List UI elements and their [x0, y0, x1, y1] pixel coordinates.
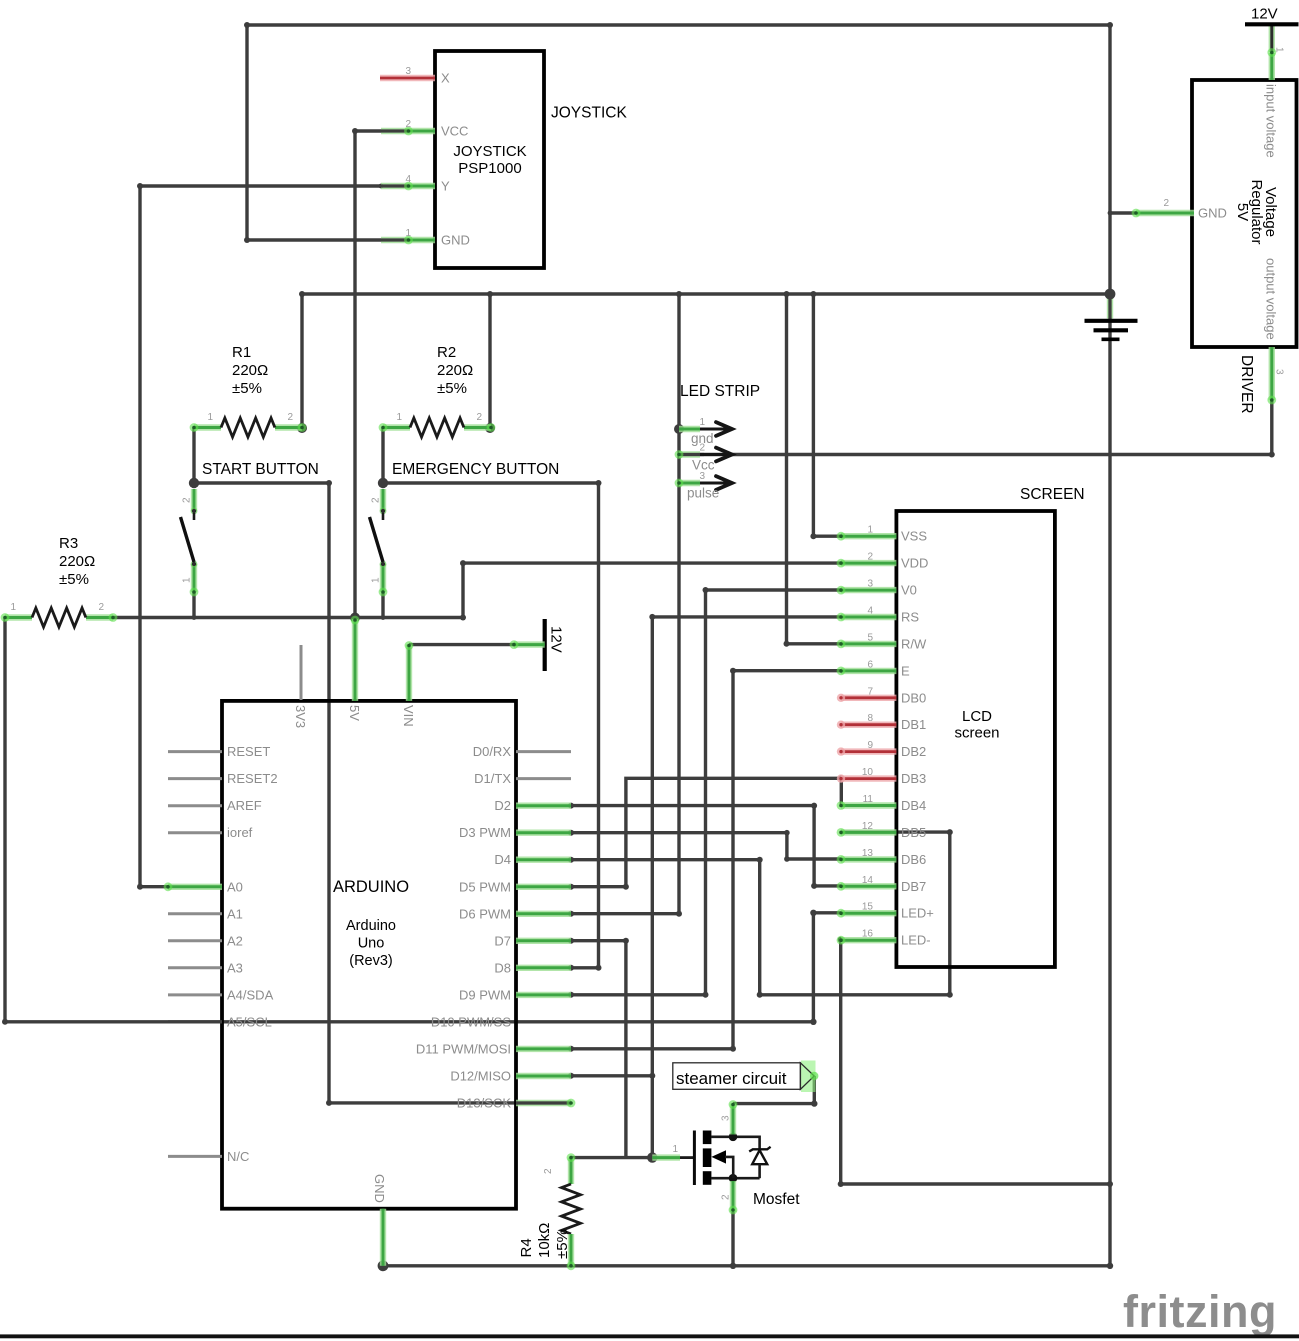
fritzing watermark — [1123, 1286, 1277, 1337]
svg-text:2: 2 — [98, 602, 104, 613]
svg-text:R2: R2 — [437, 344, 456, 361]
svg-text:DB0: DB0 — [901, 690, 926, 705]
svg-text:SCREEN: SCREEN — [1020, 486, 1085, 503]
wire D12 to gate vertical — [568, 1073, 655, 1079]
svg-text:D2: D2 — [494, 798, 511, 813]
arduino pin D12-MISO label — [450, 1069, 511, 1084]
resistor R3 labels — [59, 535, 95, 588]
wire start button to D13/SCK — [194, 480, 571, 1106]
arduino GND label — [372, 1174, 387, 1203]
wire D3 to DB6 — [568, 830, 841, 862]
screen pin 12 DB5 — [837, 828, 897, 837]
svg-text:D0/RX: D0/RX — [473, 744, 512, 759]
svg-text:D3 PWM: D3 PWM — [459, 825, 511, 840]
svg-text:LED-: LED- — [901, 933, 931, 948]
screen pin 13 DB6 — [837, 855, 897, 864]
svg-text:3: 3 — [699, 471, 705, 482]
svg-text:D10 PWM/SS: D10 PWM/SS — [431, 1014, 512, 1029]
LED STRIP title — [680, 383, 760, 400]
svg-text:D12/MISO: D12/MISO — [450, 1069, 511, 1084]
start button pin numbers — [182, 497, 193, 583]
arduino pin A4-SDA label — [227, 987, 274, 1002]
emergency button title — [392, 461, 559, 478]
arduino title — [333, 878, 409, 896]
svg-text:R3: R3 — [59, 535, 78, 552]
arduino pin D4 — [516, 857, 571, 863]
wire D9 to V0 — [568, 587, 841, 998]
LED strip pin Vcc — [675, 448, 732, 462]
screen pin number 3 — [867, 579, 873, 590]
svg-text:DB6: DB6 — [901, 852, 926, 867]
svg-text:GND: GND — [372, 1174, 387, 1203]
svg-text:Uno: Uno — [358, 936, 385, 952]
wire joystick VCC down to 5V rail — [352, 128, 381, 618]
arduino 3V3 label — [293, 705, 308, 728]
screen pin DB5 label — [901, 825, 926, 840]
svg-text:D9 PWM: D9 PWM — [459, 987, 511, 1002]
joystick pin 3 number — [405, 66, 411, 77]
wire LED- to ground — [838, 937, 1113, 1187]
joystick pin 4 number — [405, 174, 411, 185]
arduino pin RESET2 (unrouted stub) — [168, 777, 222, 780]
svg-text:LED+: LED+ — [901, 906, 934, 921]
svg-text:1: 1 — [405, 228, 411, 239]
mosfet pin 1 number — [672, 1144, 678, 1155]
screen pin number 16 — [862, 929, 874, 940]
arduino pin D13-SCK — [516, 1099, 575, 1108]
arduino pin D1-TX label — [474, 771, 511, 786]
arduino pin A1 (unrouted stub) — [168, 912, 222, 915]
joystick pin 2 number — [405, 119, 411, 130]
junction mosfet gate net — [647, 1152, 657, 1162]
12V label (near arduino) — [548, 626, 565, 653]
svg-text:ioref: ioref — [227, 825, 253, 840]
arduino pin A4-SDA (unrouted stub) — [168, 993, 222, 996]
resistor R2 labels — [437, 344, 473, 397]
screen pin number 1 — [867, 525, 873, 536]
joystick inner label — [453, 143, 526, 177]
resistor R4 pin 2 number — [543, 1168, 554, 1174]
svg-text:4: 4 — [405, 174, 411, 185]
screen pin number 10 — [862, 767, 874, 778]
screen pin 7 DB0 (red, unrouted) — [837, 694, 897, 702]
bottom border bar — [0, 1334, 1299, 1338]
wire regulator GND to ground vertical — [1108, 211, 1136, 216]
resistor R2 — [379, 418, 496, 437]
svg-text:1: 1 — [371, 577, 382, 583]
svg-text:2: 2 — [287, 412, 293, 423]
svg-text:4: 4 — [867, 606, 873, 617]
svg-text:5V: 5V — [1234, 203, 1251, 221]
svg-text:2: 2 — [476, 412, 482, 423]
regulator pin 2 number — [1163, 198, 1169, 209]
arduino pin D4 label — [494, 852, 511, 867]
screen pin DB1 label — [901, 717, 926, 732]
svg-text:16: 16 — [862, 929, 874, 940]
arduino pin D9 PWM label — [459, 987, 511, 1002]
wire VSS to ground rail — [810, 294, 841, 539]
wire ground rail y294 — [299, 291, 1110, 297]
svg-text:Mosfet: Mosfet — [753, 1191, 800, 1208]
DRIVER title — [1238, 355, 1255, 414]
junction start button — [189, 478, 199, 488]
screen pin LED+ label — [901, 906, 934, 921]
screen pin number 4 — [867, 606, 873, 617]
arduino pin AREF (unrouted stub) — [168, 804, 222, 807]
svg-text:1: 1 — [672, 1144, 678, 1155]
svg-text:DB7: DB7 — [901, 879, 926, 894]
mosfet pin 3 number — [721, 1115, 732, 1121]
joystick title — [551, 105, 627, 122]
regulator output voltage label — [1264, 258, 1279, 340]
svg-text:pulse: pulse — [687, 486, 719, 501]
svg-text:input voltage: input voltage — [1264, 84, 1279, 158]
wire D6 to LED-strip gnd vertical — [568, 294, 682, 917]
svg-text:fritzing: fritzing — [1123, 1286, 1277, 1337]
svg-text:2: 2 — [371, 497, 382, 503]
svg-text:R/W: R/W — [901, 636, 927, 651]
regulator pin 2 GND — [1132, 209, 1194, 218]
arduino pin D13-SCK label — [457, 1096, 512, 1111]
screen pin VSS label — [901, 529, 927, 544]
wire 12V symbol to arduino VIN — [409, 643, 514, 646]
arduino pin A2 label — [227, 933, 243, 948]
resistor R1 — [190, 418, 307, 437]
screen pin number 2 — [867, 552, 873, 563]
regulator pin 1 input — [1267, 48, 1276, 80]
screen pin DB3 label — [901, 771, 926, 786]
svg-text:5V: 5V — [347, 705, 362, 721]
svg-text:RS: RS — [901, 610, 919, 625]
svg-text:3: 3 — [721, 1115, 732, 1121]
arduino U5 box — [222, 701, 516, 1209]
svg-text:DB1: DB1 — [901, 717, 926, 732]
arduino pin D12-MISO — [516, 1073, 571, 1079]
resistor R3 — [1, 608, 118, 627]
arduino pin A2 (unrouted stub) — [168, 939, 222, 942]
wire start button pin1 to 5V rail — [192, 592, 197, 620]
svg-text:RESET: RESET — [227, 744, 270, 759]
arduino pin A3 label — [227, 960, 243, 975]
svg-text:3: 3 — [1274, 369, 1285, 375]
arduino pin D3 PWM label — [459, 825, 511, 840]
svg-text:2: 2 — [699, 443, 705, 454]
svg-text:D7: D7 — [494, 933, 511, 948]
joystick pin GND — [381, 236, 435, 245]
wire R1 pin2 up to ground rail — [297, 294, 307, 433]
wire regulator output to LED strip Vcc — [680, 400, 1275, 458]
svg-text:12V: 12V — [548, 626, 565, 653]
12V supply symbol (near arduino) — [510, 619, 545, 671]
voltage regulator U3 box — [1192, 80, 1297, 347]
svg-text:220Ω: 220Ω — [232, 362, 268, 379]
screen pin number 6 — [867, 659, 873, 670]
ground symbol — [1085, 289, 1138, 340]
arduino VIN label — [401, 705, 416, 727]
wire RS down to gate net — [649, 614, 841, 1158]
screen pin 4 RS — [837, 613, 897, 622]
svg-text:Y: Y — [441, 179, 450, 194]
svg-text:DB2: DB2 — [901, 744, 926, 759]
resistor R2 pin numbers — [396, 412, 482, 423]
wire R1 pin1 down to start button — [192, 428, 195, 484]
arduino pin GND — [380, 1209, 386, 1266]
wire mosfet drain to steamer arrow — [733, 1076, 818, 1107]
screen pin V0 label — [901, 583, 917, 598]
svg-text:±5%: ±5% — [554, 1229, 571, 1259]
wire D7 down to gate net — [568, 938, 629, 1158]
svg-text:1: 1 — [182, 577, 193, 583]
junction LED strip gnd — [674, 424, 684, 434]
mosfet Q1 source link — [711, 1174, 760, 1183]
screen pin 15 LED+ — [837, 909, 897, 918]
LED strip pin 3 number — [699, 471, 705, 482]
screen pin number 9 — [867, 740, 873, 751]
svg-text:D6 PWM: D6 PWM — [459, 906, 511, 921]
junction emergency button — [378, 478, 388, 488]
emergency button pin numbers — [371, 497, 382, 583]
LCD screen inner label — [954, 708, 999, 742]
mosfet pin 2 number — [721, 1194, 732, 1200]
wire R3 pin1 to LED+ via y1022 — [2, 618, 841, 1026]
svg-text:15: 15 — [862, 902, 874, 913]
mosfet label — [753, 1191, 800, 1208]
regulator input voltage label — [1264, 84, 1279, 158]
switch START BUTTON — [181, 489, 199, 596]
wire D11 to E — [568, 668, 841, 1052]
svg-text:2: 2 — [867, 552, 873, 563]
screen title — [1020, 486, 1085, 503]
svg-text:DRIVER: DRIVER — [1238, 355, 1255, 414]
resistor R1 pin numbers — [207, 412, 293, 423]
arduino pin A0 label — [227, 879, 243, 894]
svg-text:D8: D8 — [494, 960, 511, 975]
svg-text:LCD: LCD — [962, 708, 992, 725]
arduino pin D0-RX (unrouted stub) — [516, 750, 571, 753]
svg-text:D1/TX: D1/TX — [474, 771, 511, 786]
screen pin number 5 — [867, 632, 873, 643]
svg-text:3: 3 — [867, 579, 873, 590]
svg-text:Arduino: Arduino — [346, 918, 396, 934]
wire bottom ground bus y1266 — [383, 1263, 1113, 1269]
arduino pin D9 PWM — [516, 992, 571, 998]
arduino pin N-C (unrouted stub) — [168, 1155, 222, 1158]
wire R4 top to mosfet gate — [571, 1156, 694, 1159]
svg-text:steamer circuit: steamer circuit — [676, 1069, 787, 1088]
arduino pin D11 PWM-MOSI — [516, 1046, 571, 1052]
resistor R1 labels — [232, 344, 268, 397]
screen pin DB7 label — [901, 879, 926, 894]
svg-text:11: 11 — [863, 794, 874, 805]
svg-text:ARDUINO: ARDUINO — [333, 878, 409, 896]
screen pin 10 DB3 (red, unrouted) — [837, 774, 897, 782]
svg-text:3: 3 — [405, 66, 411, 77]
svg-text:1: 1 — [10, 602, 16, 613]
svg-text:DB5: DB5 — [901, 825, 926, 840]
svg-text:220Ω: 220Ω — [437, 362, 473, 379]
svg-text:N/C: N/C — [227, 1149, 249, 1164]
svg-text:1: 1 — [396, 412, 402, 423]
12V top label — [1251, 6, 1278, 23]
svg-text:7: 7 — [867, 686, 873, 697]
screen pin number 12 — [862, 821, 874, 832]
screen pin number 13 — [862, 848, 874, 859]
LED strip pin gnd — [679, 422, 732, 436]
wire R2 pin1 down to emergency button — [381, 428, 384, 484]
LED strip pulse label — [687, 486, 719, 501]
wire D5 to DB4 — [568, 775, 844, 889]
svg-text:12V: 12V — [1251, 6, 1278, 23]
screen pin RS label — [901, 610, 919, 625]
screen pin 14 DB7 — [837, 882, 897, 891]
arduino pin D3 PWM — [516, 830, 571, 836]
wire emergency button pin1 to 5V rail — [381, 592, 386, 620]
arduino inner label — [346, 918, 396, 969]
junction 5V rail — [350, 613, 360, 623]
screen pin LED- label — [901, 933, 931, 948]
wire D2 to DB7 — [568, 803, 841, 889]
arduino pin RESET label — [227, 744, 270, 759]
svg-text:GND: GND — [1198, 206, 1227, 221]
svg-text:output voltage: output voltage — [1264, 258, 1279, 340]
wire joystick Y to A0 — [137, 183, 383, 890]
screen pin 5 R/W — [837, 640, 897, 649]
LED strip pin pulse — [675, 476, 732, 490]
arduino pin RESET (unrouted stub) — [168, 750, 222, 753]
resistor R4 labels — [518, 1223, 571, 1259]
switch EMERGENCY BUTTON — [370, 489, 388, 596]
LED strip pin 1 number — [699, 417, 705, 428]
arduino pin D11 PWM-MOSI label — [416, 1041, 511, 1056]
screen pin DB0 label — [901, 690, 926, 705]
regulator GND label — [1198, 206, 1227, 221]
svg-text:D11 PWM/MOSI: D11 PWM/MOSI — [416, 1041, 511, 1056]
svg-text:1: 1 — [867, 525, 873, 536]
screen pin 6 E — [837, 667, 897, 676]
svg-text:A4/SDA: A4/SDA — [227, 987, 274, 1002]
svg-text:D5 PWM: D5 PWM — [459, 879, 511, 894]
screen pin VDD label — [901, 556, 928, 571]
svg-text:VDD: VDD — [901, 556, 928, 571]
arduino pin A5-SCL (stub under wire) — [168, 1020, 222, 1023]
arduino pin 5V — [351, 616, 360, 701]
wire joystick GND to top ground rail — [244, 22, 1113, 243]
arduino pin D8 — [516, 965, 571, 971]
arduino pin D6 PWM label — [459, 906, 511, 921]
LED strip Vcc label — [692, 458, 715, 473]
joystick pin X label — [441, 71, 450, 86]
screen pin 16 LED- — [837, 936, 897, 945]
svg-text:1: 1 — [699, 417, 705, 428]
mosfet pin 2 source stub — [729, 1181, 738, 1214]
svg-text:220Ω: 220Ω — [59, 553, 95, 570]
joystick pin VCC label — [441, 124, 468, 139]
joystick pin Y — [381, 182, 435, 191]
arduino pin D6 PWM — [516, 911, 571, 917]
mosfet pin 3 drain stub — [729, 1100, 738, 1134]
svg-text:A0: A0 — [227, 879, 243, 894]
screen U4 box — [896, 511, 1055, 967]
screen pin number 11 — [863, 794, 874, 805]
svg-text:screen: screen — [954, 725, 999, 742]
svg-text:A1: A1 — [227, 906, 243, 921]
svg-text:±5%: ±5% — [437, 380, 467, 397]
screen pin DB6 label — [901, 852, 926, 867]
resistor R3 pin numbers — [10, 602, 104, 613]
svg-text:X: X — [441, 71, 450, 86]
regulator pin 3 output — [1267, 347, 1276, 404]
screen pin DB4 label — [901, 798, 926, 813]
svg-text:±5%: ±5% — [59, 571, 89, 588]
mosfet Q1 gate bar — [693, 1131, 696, 1186]
svg-text:EMERGENCY BUTTON: EMERGENCY BUTTON — [392, 461, 559, 478]
arduino 5V label — [347, 705, 362, 721]
svg-text:±5%: ±5% — [232, 380, 262, 397]
svg-text:12: 12 — [862, 821, 874, 832]
screen pin 2 VDD — [837, 559, 897, 568]
screen pin number 14 — [862, 875, 874, 886]
joystick pin X (red, unrouted) — [380, 75, 435, 81]
wire D4 to DB5 — [568, 829, 953, 998]
svg-text:6: 6 — [867, 659, 873, 670]
LED strip pin 2 number — [699, 443, 705, 454]
12V top pin 1 number — [1274, 47, 1285, 53]
svg-text:2: 2 — [1163, 198, 1169, 209]
svg-text:VSS: VSS — [901, 529, 927, 544]
svg-text:R1: R1 — [232, 344, 251, 361]
wire R/W to ground rail — [784, 294, 842, 647]
LED strip gnd label — [691, 431, 714, 446]
wire mosfet source down to ground bus — [730, 1212, 736, 1269]
arduino pin A3 (unrouted stub) — [168, 966, 222, 969]
svg-text:2: 2 — [405, 119, 411, 130]
svg-text:2: 2 — [182, 497, 193, 503]
net label steamer circuit — [673, 1061, 819, 1093]
arduino pin D5 PWM label — [459, 879, 511, 894]
mosfet Q1 channel bars — [703, 1131, 712, 1185]
svg-text:1: 1 — [207, 412, 213, 423]
screen pin number 7 — [867, 686, 873, 697]
wire 12V top symbol stub — [1269, 26, 1275, 52]
arduino pin A5-SCL label — [227, 1014, 272, 1029]
arduino pin D0-RX label — [473, 744, 512, 759]
svg-text:A3: A3 — [227, 960, 243, 975]
svg-text:START BUTTON: START BUTTON — [202, 461, 319, 478]
ground vertical x1110 — [1108, 25, 1111, 1266]
svg-text:PSP1000: PSP1000 — [458, 160, 521, 177]
arduino pin ioref label — [227, 825, 253, 840]
svg-text:VCC: VCC — [441, 124, 468, 139]
arduino pin D10 PWM-SS label — [431, 1014, 512, 1029]
svg-text:JOYSTICK: JOYSTICK — [453, 143, 526, 160]
screen pin 3 V0 — [837, 586, 897, 595]
screen pin R/W label — [901, 636, 927, 651]
arduino pin D7 label — [494, 933, 511, 948]
screen pin E label — [901, 663, 910, 678]
screen pin 8 DB1 (red, unrouted) — [837, 721, 897, 729]
screen pin number 8 — [867, 713, 873, 724]
arduino pin D7 — [516, 938, 571, 944]
screen pin DB2 label — [901, 744, 926, 759]
svg-text:13: 13 — [862, 848, 874, 859]
arduino pin D1-TX (unrouted stub) — [516, 777, 571, 780]
svg-text:A5/SCL: A5/SCL — [227, 1014, 272, 1029]
wire emergency button to D8 — [383, 480, 602, 971]
joystick pin Y label — [441, 179, 450, 194]
regulator inner label — [1234, 179, 1279, 244]
junction arduino GND — [378, 1260, 389, 1271]
arduino pin RESET2 label — [227, 771, 278, 786]
